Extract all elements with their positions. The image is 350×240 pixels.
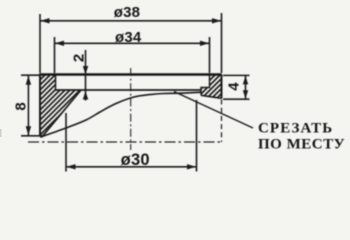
oblique cut curve [42,92,201,136]
dimension o30 left arrow [67,164,76,169]
svg-text:4: 4 [226,82,243,91]
svg-text:2: 2 [71,54,88,63]
dimension o30 right extension line [196,100,198,172]
dimension 8 top arrow [26,76,31,85]
dimension 4 top arrow [243,76,248,85]
rim shoulder edge [56,89,202,91]
dimension 8 bottom extension line [21,135,43,137]
dimension 4 top extension line [223,74,250,76]
dimension 8 bottom arrow [26,126,31,135]
dimension o38 right extension line [221,13,223,73]
dimension o38 line [40,20,222,22]
right wall outer edge [221,75,223,99]
left wall inner face [55,75,57,91]
dimension 2 upper arrow [83,66,88,75]
leader line to cut note [174,92,253,129]
scan smudge left edge [0,129,2,137]
rim top edge [40,73,222,75]
dimension o30 line [66,166,197,168]
left wall outer edge [39,74,41,137]
svg-text:ø30: ø30 [121,151,150,169]
left wall section hatch [40,74,81,137]
dimension o34 line [55,42,210,44]
svg-text:СРЕЗАТЬ: СРЕЗАТЬ [258,120,333,136]
right wall cut bottom edge [201,95,222,98]
dimension 4 bottom extension line [223,98,250,100]
right wall inner face and step [201,75,210,96]
dimension o38 left arrow [41,18,50,23]
dimension o38 left extension line [39,14,41,73]
dimension o34 left arrow [55,41,64,46]
svg-text:ПО МЕСТУ: ПО МЕСТУ [258,136,345,152]
left wall cut edge [40,90,81,137]
dimension o30 left extension line [65,113,67,172]
right wall section hatch [201,74,222,99]
dimension 8 line [27,75,29,136]
dimension 4 line [245,75,247,99]
dimension 2 line [85,50,87,101]
svg-text:ø34: ø34 [115,29,142,46]
dimension o34 left extension line [54,37,56,73]
dimension o34 right extension line [209,37,211,73]
hidden outline of uncut wall (dashed) [221,100,223,143]
dimension 8 top extension line [21,74,40,76]
vertical center line (dash-dot) [130,68,132,150]
dimension 4 bottom arrow [243,90,248,99]
bottom axis line (dash-dot) [28,141,222,143]
dimension o38 right arrow [212,18,221,23]
svg-text:ø38: ø38 [114,4,140,21]
dimension o34 right arrow [200,41,209,46]
dimension 2 lower arrow [83,91,88,100]
svg-text:8: 8 [12,102,29,111]
dimension o30 right arrow [187,164,196,169]
